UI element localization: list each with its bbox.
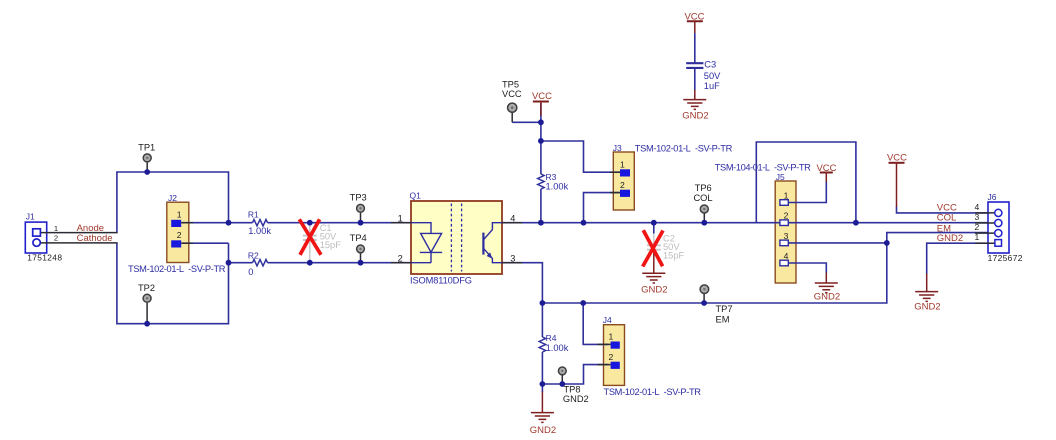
svg-text:GND2: GND2 xyxy=(530,425,556,436)
svg-text:R3: R3 xyxy=(546,172,557,182)
svg-text:R4: R4 xyxy=(546,333,557,343)
svg-text:1: 1 xyxy=(609,332,614,342)
svg-text:J3: J3 xyxy=(613,143,622,153)
svg-text:1725672: 1725672 xyxy=(988,253,1023,263)
svg-text:TP7: TP7 xyxy=(716,304,733,314)
svg-text:GND2: GND2 xyxy=(814,291,840,302)
svg-text:4: 4 xyxy=(784,251,789,261)
svg-text:TSM-102-01-L -SV-P-TR: TSM-102-01-L -SV-P-TR xyxy=(604,387,702,397)
svg-text:1: 1 xyxy=(784,191,789,201)
svg-text:1.00k: 1.00k xyxy=(546,182,569,192)
svg-text:EM: EM xyxy=(716,314,730,324)
svg-text:3: 3 xyxy=(975,212,980,222)
svg-text:15pF: 15pF xyxy=(663,251,685,261)
svg-text:2: 2 xyxy=(620,180,625,190)
svg-text:COL: COL xyxy=(693,193,712,203)
svg-text:COL: COL xyxy=(937,213,957,224)
svg-text:J6: J6 xyxy=(988,192,997,202)
svg-text:J5: J5 xyxy=(776,172,785,182)
svg-text:15pF: 15pF xyxy=(320,240,342,250)
svg-text:1uF: 1uF xyxy=(704,81,720,91)
svg-text:1: 1 xyxy=(620,160,625,170)
svg-text:VCC: VCC xyxy=(532,91,552,102)
svg-text:Q1: Q1 xyxy=(410,191,422,201)
svg-text:2: 2 xyxy=(177,230,182,240)
svg-text:C3: C3 xyxy=(704,59,716,69)
svg-text:2: 2 xyxy=(54,234,58,243)
svg-text:GND2: GND2 xyxy=(937,233,963,244)
svg-text:1: 1 xyxy=(54,224,58,233)
svg-text:50V: 50V xyxy=(704,71,721,81)
svg-text:3: 3 xyxy=(510,253,515,263)
svg-text:J4: J4 xyxy=(603,315,612,325)
svg-text:TSM-102-01-L -SV-P-TR: TSM-102-01-L -SV-P-TR xyxy=(128,264,226,274)
svg-text:1751248: 1751248 xyxy=(27,253,62,263)
svg-text:TP6: TP6 xyxy=(695,183,712,193)
svg-text:TSM-104-01-L -SV-P-TR: TSM-104-01-L -SV-P-TR xyxy=(715,162,811,172)
svg-text:GND2: GND2 xyxy=(563,394,589,404)
svg-text:VCC: VCC xyxy=(816,163,836,174)
svg-text:TP2: TP2 xyxy=(138,283,155,293)
svg-text:1: 1 xyxy=(177,210,182,220)
svg-text:GND2: GND2 xyxy=(914,302,940,313)
svg-text:GND2: GND2 xyxy=(641,284,667,295)
svg-text:3: 3 xyxy=(784,231,789,241)
svg-text:VCC: VCC xyxy=(887,152,907,163)
svg-text:TP3: TP3 xyxy=(350,192,367,202)
svg-text:2: 2 xyxy=(784,211,789,221)
svg-text:TP4: TP4 xyxy=(350,233,367,243)
svg-text:R2: R2 xyxy=(248,250,259,260)
svg-text:1: 1 xyxy=(975,232,980,242)
svg-text:GND2: GND2 xyxy=(682,110,708,121)
svg-text:1.00k: 1.00k xyxy=(248,226,271,236)
svg-text:2: 2 xyxy=(609,352,614,362)
svg-text:TSM-102-01-L -SV-P-TR: TSM-102-01-L -SV-P-TR xyxy=(635,143,733,153)
svg-text:0: 0 xyxy=(248,267,253,277)
svg-text:R1: R1 xyxy=(248,209,259,219)
svg-text:2: 2 xyxy=(398,253,403,263)
svg-text:VCC: VCC xyxy=(684,11,704,22)
svg-text:1.00k: 1.00k xyxy=(546,343,569,353)
svg-text:Cathode: Cathode xyxy=(77,233,113,244)
svg-text:4: 4 xyxy=(510,213,515,223)
svg-text:ISOM8110DFG: ISOM8110DFG xyxy=(410,275,472,285)
svg-text:J2: J2 xyxy=(168,193,177,203)
svg-text:VCC: VCC xyxy=(502,89,522,99)
svg-text:2: 2 xyxy=(975,222,980,232)
svg-text:1: 1 xyxy=(398,213,403,223)
svg-text:TP1: TP1 xyxy=(138,142,155,152)
svg-text:4: 4 xyxy=(975,202,980,212)
svg-text:J1: J1 xyxy=(26,212,35,222)
